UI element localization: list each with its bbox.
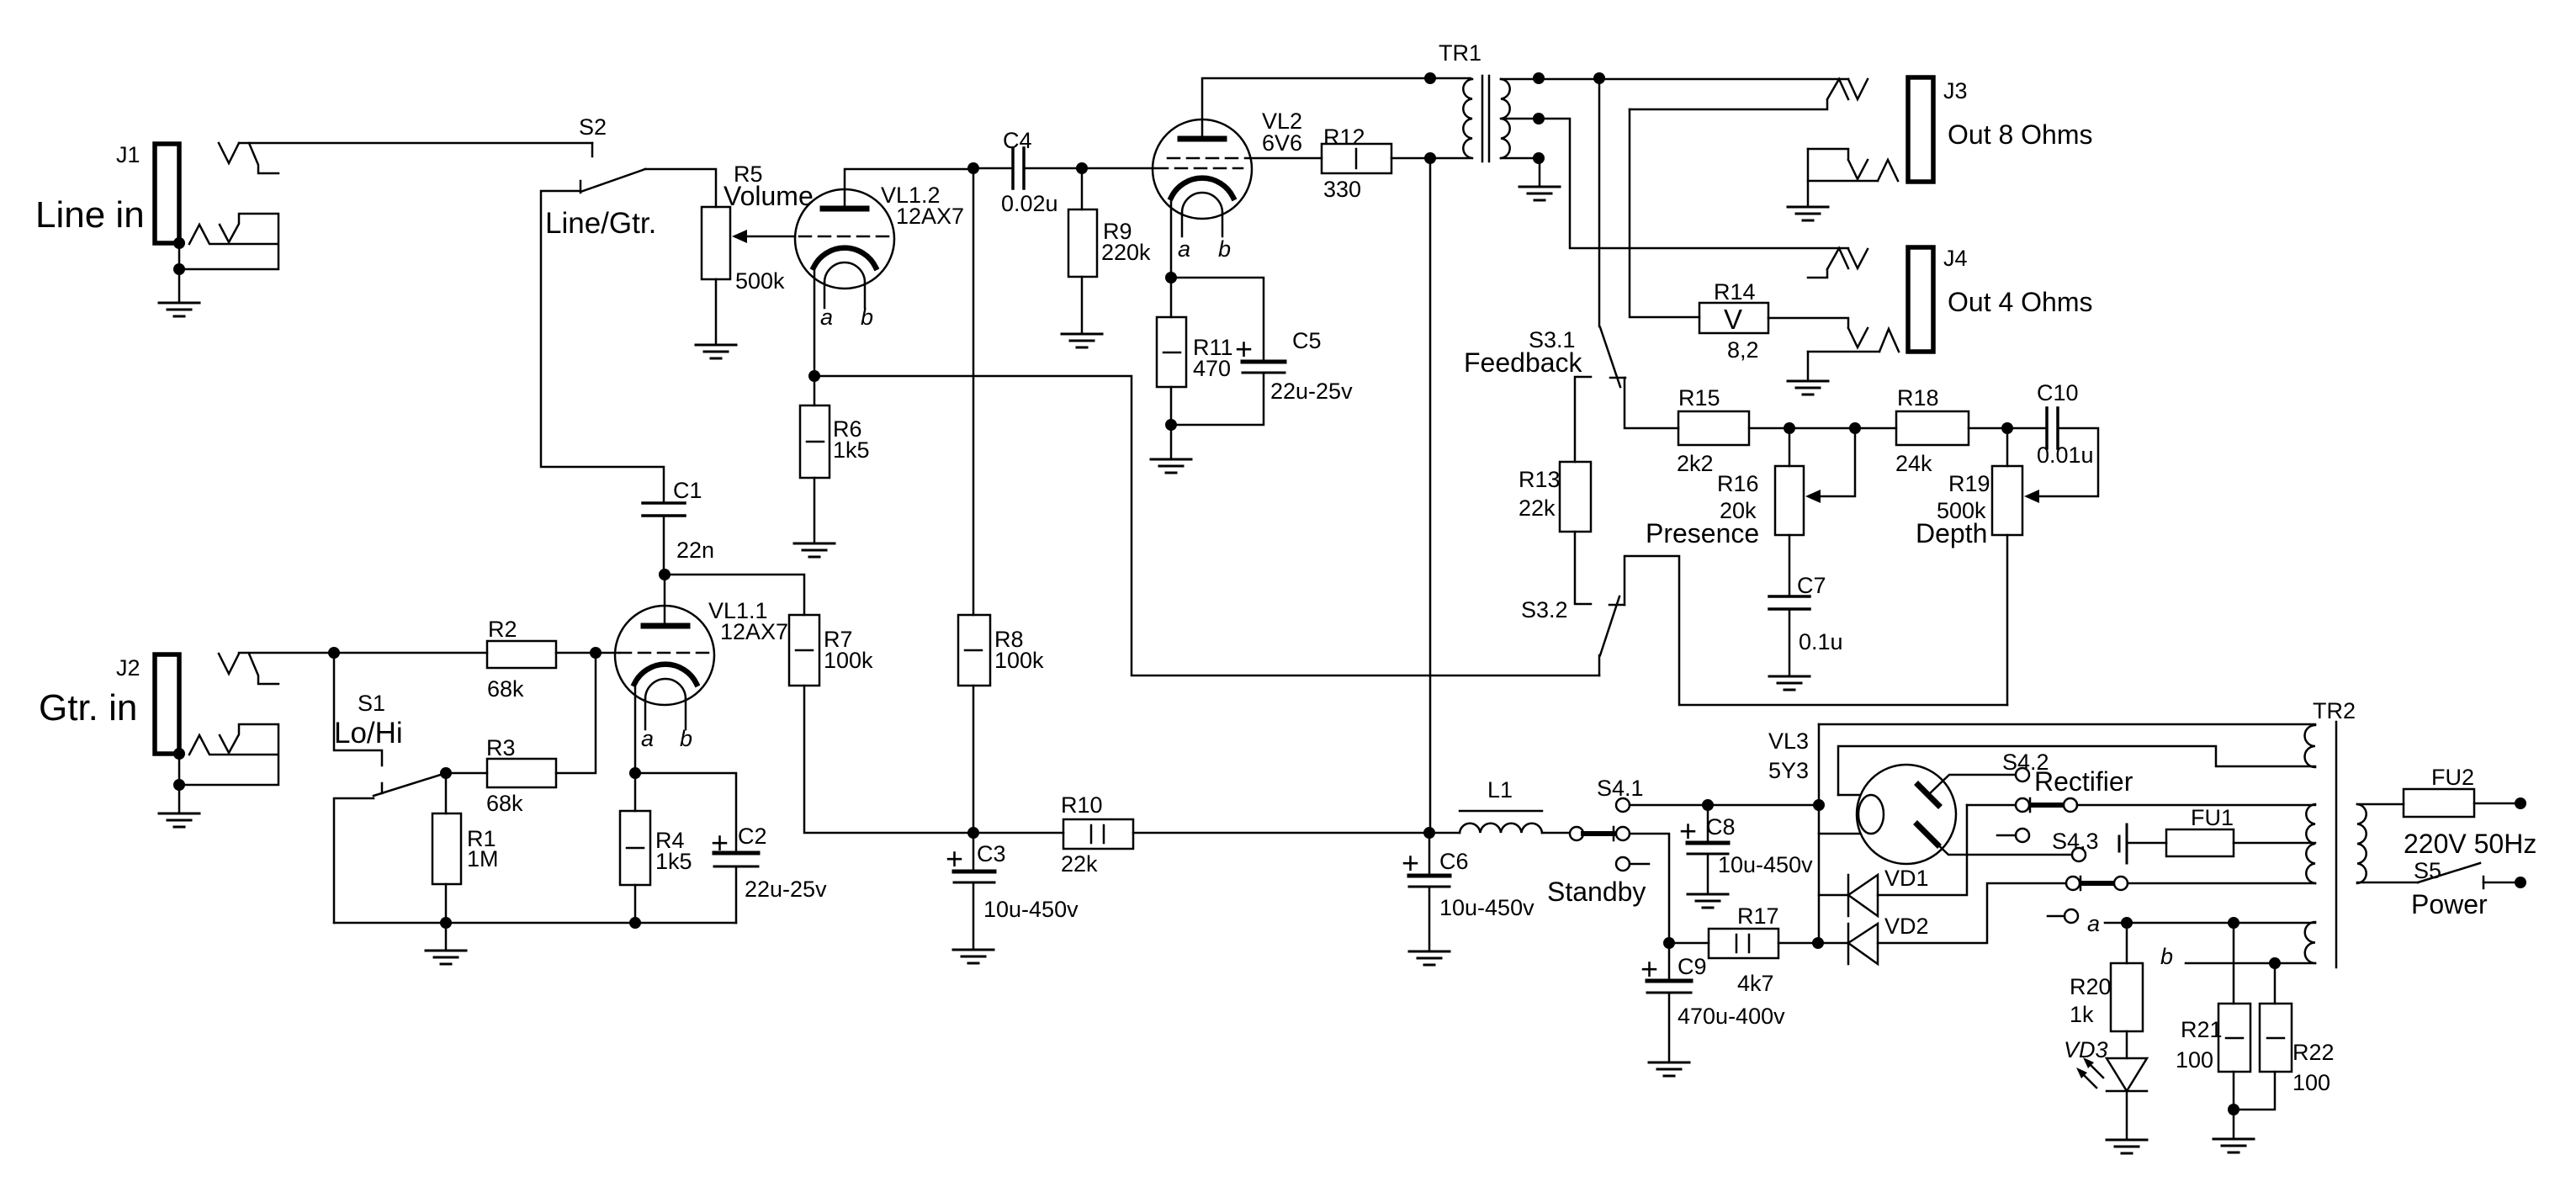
TR2 primary winding: [2357, 804, 2367, 883]
wire node to R17: [1669, 942, 1709, 945]
ground (C3): [953, 950, 994, 963]
svg-text:C6: C6: [1439, 849, 1469, 874]
node VL2 plate / TR1 primary top: [1424, 72, 1436, 84]
resistor R10: [1063, 819, 1133, 849]
wire S4.2 to TR2 HV top: [2077, 804, 2315, 807]
diode VD2 cathode bar: [1847, 924, 1850, 964]
ground (input bus): [426, 951, 466, 964]
svg-text:R2: R2: [488, 617, 517, 642]
svg-text:500k: 500k: [735, 268, 785, 294]
S4.1 arm tick: [1613, 827, 1615, 840]
wire R12 to primary bottom node: [1391, 157, 1471, 160]
wire TR1 secondary top to J3: [1501, 78, 1848, 81]
svg-text:VL3: VL3: [1768, 728, 1809, 754]
node secondary bottom terminal: [1533, 152, 1545, 164]
svg-text:a: a: [641, 726, 654, 751]
diode VD1 cathode bar: [1847, 875, 1850, 916]
VD3 emission arrows: [2076, 1057, 2103, 1088]
capacitor C3: [954, 870, 994, 874]
R5 wiper arrow: [745, 236, 795, 238]
svg-text:6V6: 6V6: [1262, 130, 1302, 156]
svg-text:J2: J2: [116, 655, 140, 681]
wire J3 switched to R14: [1630, 109, 1699, 317]
svg-text:0.01u: 0.01u: [2037, 442, 2094, 468]
switch S3.1 common wire: [1598, 78, 1601, 326]
node secondary top terminal: [1533, 72, 1545, 84]
svg-text:FU1: FU1: [2191, 805, 2234, 830]
svg-text:1k: 1k: [2070, 1002, 2094, 1027]
free contact (heater a row): [2065, 909, 2078, 923]
wire TR1 4-ohm tap to J4: [1501, 119, 1848, 248]
svg-text:L1: L1: [1487, 777, 1513, 803]
svg-text:10u-450v: 10u-450v: [1718, 852, 1813, 877]
switch S3.2 arm: [1599, 596, 1619, 675]
svg-text:a: a: [2087, 911, 2100, 936]
wire R3 to grid node: [556, 653, 596, 773]
svg-text:Out 4 Ohms: Out 4 Ohms: [1948, 287, 2093, 317]
resistor R7: [789, 615, 819, 686]
J4 tip switched stub: [1808, 269, 1827, 278]
node C1/VL1.1 grid/R7: [659, 569, 671, 580]
S4.2 throw contact: [2064, 798, 2077, 812]
svg-text:VD2: VD2: [1884, 914, 1929, 939]
svg-text:S1: S1: [358, 691, 385, 716]
ground (R6): [794, 543, 835, 557]
J4 ground stem: [1807, 352, 1810, 379]
tube VL1.2 envelope: [795, 189, 894, 289]
svg-text:b: b: [2160, 944, 2173, 969]
VL3 filament top lead: [1838, 794, 1859, 797]
svg-text:R22: R22: [2292, 1040, 2335, 1065]
wire S4.1 to C9 node: [1630, 834, 1669, 943]
svg-text:68k: 68k: [487, 676, 524, 702]
VL2 heater lead a: [1181, 213, 1184, 236]
ground (C6): [1409, 951, 1450, 965]
node R21 top: [2228, 917, 2239, 929]
VL2 plate lead: [1202, 78, 1471, 136]
R4 bottom lead: [634, 885, 637, 923]
wire node to R10: [973, 832, 1063, 834]
wire R6 to ground: [814, 478, 816, 542]
node R7/R8/C3/R10 (B+ preamp): [967, 827, 979, 839]
S5 contact tick: [2483, 877, 2485, 888]
R19 bottom lead: [2006, 535, 2009, 705]
R1 top lead: [445, 773, 448, 813]
S4.1 throw contact: [1616, 827, 1630, 840]
S4.2 arm (closed): [2032, 803, 2063, 808]
wire J2 sleeve to ground: [178, 754, 181, 812]
J1 tip switched stub: [249, 143, 278, 173]
wire VD3 to ground: [2126, 1091, 2128, 1138]
J2 sleeve spring contact: [189, 735, 278, 755]
R19 top lead: [2006, 428, 2009, 466]
node C6 / L1 / B+: [1423, 827, 1435, 839]
node R16 wiper takeoff: [1849, 422, 1861, 434]
wire chassis to FU1: [2127, 842, 2166, 845]
ground (R5): [696, 345, 736, 358]
svg-text:22k: 22k: [1519, 495, 1556, 521]
ground (J4): [1788, 381, 1828, 395]
VL3 anode 1 lead: [1929, 775, 2016, 794]
ground (R11/C5): [1151, 459, 1191, 473]
resistor R1: [432, 813, 461, 884]
R16 wiper wire: [1817, 428, 1855, 496]
J2 shunt spring contact: [179, 724, 278, 785]
svg-text:470: 470: [1193, 356, 1231, 381]
wire cathode node to C5: [1171, 278, 1264, 362]
connector J1 (Line in jack body): [155, 144, 179, 243]
fuse FU2: [2404, 789, 2474, 817]
wire cathode node to feedback return: [814, 376, 1599, 675]
wire C6 to ground: [1428, 887, 1431, 950]
svg-text:4k7: 4k7: [1737, 971, 1774, 996]
node R17 / VD2 / VD1 riser: [1812, 937, 1824, 949]
R6 top lead: [814, 376, 816, 405]
S1 contact tick: [381, 783, 384, 793]
wire R9 to ground: [1081, 277, 1084, 332]
ground (J2): [159, 813, 199, 827]
R11 top lead: [1170, 278, 1173, 317]
svg-text:100: 100: [2176, 1047, 2213, 1073]
svg-text:C7: C7: [1797, 573, 1826, 598]
svg-text:22u-25v: 22u-25v: [1270, 379, 1353, 404]
svg-text:220k: 220k: [1101, 240, 1151, 265]
capacitor C5: [1243, 360, 1285, 364]
R16 bottom lead: [1789, 535, 1791, 596]
switch S4.3 plate contact: [2072, 848, 2086, 861]
svg-text:b: b: [861, 305, 873, 330]
svg-text:Rectifier: Rectifier: [2034, 766, 2133, 797]
tube VL3 envelope: [1857, 765, 1956, 864]
switch S1 arm: [374, 773, 446, 796]
svg-text:C9: C9: [1678, 954, 1707, 979]
svg-text:Line in: Line in: [35, 194, 145, 236]
wire R7 bottom to node: [804, 686, 973, 833]
svg-text:100k: 100k: [994, 648, 1044, 673]
fuse FU1: [2166, 829, 2234, 856]
wire VD1 cathode to riser: [1819, 894, 1848, 897]
ground (J3): [1788, 207, 1828, 220]
node C8 top: [1702, 799, 1714, 811]
node J2 tip / S1: [328, 647, 340, 659]
ground (C8): [1688, 894, 1728, 908]
svg-text:V: V: [1724, 304, 1742, 335]
capacitor C8: [1688, 841, 1728, 845]
svg-text:100k: 100k: [824, 648, 873, 673]
C9 top lead: [1668, 943, 1671, 981]
switch S4.2 upper contact: [2016, 768, 2029, 781]
resistor R14: [1699, 303, 1768, 333]
wire C3 to ground: [973, 882, 975, 948]
svg-text:1M: 1M: [467, 846, 499, 871]
svg-text:VD1: VD1: [1884, 866, 1929, 891]
node VL2 cathode / R11 / C5: [1165, 272, 1177, 283]
J3 tip spring contacts: [1827, 79, 1868, 99]
node R12 / TR1 primary bottom / B+: [1424, 152, 1436, 164]
wire node to R3: [446, 772, 487, 775]
J1 sleeve spring contact: [189, 225, 278, 244]
resistor R17: [1709, 929, 1778, 958]
svg-text:C2: C2: [738, 824, 767, 849]
wire VD2 anode to S4.3 row: [1878, 883, 2066, 943]
wire VL2 screen to R12: [1245, 157, 1322, 160]
wire S5 to mains terminal: [2483, 882, 2515, 884]
tube VL2 envelope: [1153, 119, 1252, 219]
TR2 6.3V winding: [2305, 922, 2315, 963]
node secondary tap terminal: [1533, 113, 1545, 124]
VL3 anode 1 bar: [1918, 785, 1938, 805]
resistor R6: [800, 405, 830, 478]
VL1.1 heater lead a: [644, 699, 647, 729]
ground stem (bus): [445, 923, 448, 949]
node R22 top: [2269, 957, 2281, 969]
node S1/R1/R3: [440, 767, 452, 779]
VL1.2 plate bar: [823, 206, 867, 212]
VL1.1 heater lead b: [685, 699, 687, 729]
ground (C9): [1649, 1062, 1689, 1076]
svg-text:1k5: 1k5: [833, 437, 870, 463]
VL2 screen grid (dashed): [1168, 157, 1245, 160]
svg-text:Line/Gtr.: Line/Gtr.: [545, 207, 656, 240]
VL1.1 heater arc: [645, 679, 686, 699]
node VL1.1 cathode / R4 / C2: [629, 767, 641, 779]
wire C8 to ground: [1707, 854, 1709, 893]
S4.2 arm tick: [2029, 798, 2032, 812]
R5 wiper arrowhead: [732, 230, 747, 243]
ground (R21/R22): [2213, 1139, 2254, 1152]
resistor R8: [958, 615, 990, 686]
switch S4.3 open contact: [2016, 829, 2029, 842]
LED VD3: [2107, 1058, 2147, 1091]
svg-text:S3.2: S3.2: [1521, 597, 1568, 622]
wire TR2 primary bottom to S5: [2357, 882, 2418, 884]
resistor R15: [1678, 411, 1749, 445]
VL1.2 heater arc: [824, 262, 865, 283]
S3.2 contact to presence loop: [1625, 556, 2007, 705]
ground (C7): [1769, 676, 1810, 690]
switch S2 upper contact: [591, 143, 594, 156]
wire R5 to ground: [715, 279, 718, 343]
svg-text:Gtr. in: Gtr. in: [39, 687, 137, 728]
wire J2 tip to R2: [239, 652, 487, 654]
VL1.2 cathode arc: [814, 248, 876, 268]
svg-text:100: 100: [2292, 1070, 2330, 1095]
svg-text:Depth: Depth: [1916, 518, 1987, 548]
ground (R9): [1062, 334, 1102, 347]
svg-text:FU2: FU2: [2431, 765, 2474, 790]
svg-text:22u-25v: 22u-25v: [745, 877, 827, 902]
node J2 sleeve: [173, 748, 185, 760]
wire VL3 filament node riser: [1818, 724, 1821, 943]
S4.3 arm (closed): [2082, 881, 2113, 886]
svg-text:R17: R17: [1737, 903, 1779, 929]
wire S4.2 feed: [1967, 804, 2016, 807]
wire TR1 secondary bottom to ground: [1501, 158, 1540, 185]
svg-text:R19: R19: [1948, 471, 1990, 496]
svg-text:2k2: 2k2: [1677, 451, 1714, 476]
wire C9 to ground: [1668, 993, 1671, 1061]
svg-text:TR1: TR1: [1439, 40, 1481, 66]
switch S4.3 pole contact: [2066, 877, 2080, 890]
resistor R2: [487, 641, 556, 668]
wire C2 to ground bus: [735, 866, 738, 923]
svg-text:Presence: Presence: [1646, 518, 1759, 548]
J3 sleeve lower contact: [1808, 160, 1898, 181]
VL3 filament loop: [1858, 795, 1884, 834]
wire node to C4: [973, 167, 1013, 170]
J4 sleeve lower contact: [1808, 329, 1899, 352]
svg-text:68k: 68k: [486, 791, 523, 816]
wire heater a to TR2: [2105, 922, 2315, 924]
wire R14 to J4 sleeve: [1768, 318, 1868, 347]
R20 top lead: [2126, 923, 2128, 963]
svg-text:a: a: [1178, 236, 1190, 262]
VL1.2 heater lead b: [864, 283, 867, 308]
diode VD2: [1848, 924, 1878, 964]
transformer TR2 5V winding: [2304, 725, 2315, 767]
node J2 ground junction: [173, 779, 185, 791]
S4.3 open contact stub: [1997, 834, 2016, 837]
svg-text:12AX7: 12AX7: [720, 619, 788, 644]
svg-text:10u-450v: 10u-450v: [1439, 895, 1534, 920]
switch S5 arm: [2418, 863, 2480, 882]
TR2 HV winding: [2306, 804, 2315, 883]
node C4 right / R9: [1076, 162, 1088, 174]
wire R8 riser: [973, 168, 975, 615]
tube VL1.1 envelope: [615, 606, 714, 705]
VL1.2 plate lead: [845, 169, 973, 206]
svg-text:C8: C8: [1706, 814, 1736, 840]
svg-text:b: b: [1218, 236, 1231, 262]
wire J1 sleeve to ground: [178, 243, 181, 301]
S4.1 upper contact: [1616, 798, 1630, 812]
wire C5 bottom to R11 bottom: [1171, 373, 1264, 425]
ground (TR1 secondary): [1519, 187, 1560, 200]
wire B+ riser to C6 node: [1429, 158, 1432, 833]
VL2 cathode arc: [1171, 178, 1233, 198]
wire heater b to TR2: [2186, 962, 2315, 965]
VL1.2 heater lead a: [824, 283, 826, 308]
capacitor C10: [2047, 408, 2058, 448]
terminal mains neutral: [2515, 877, 2526, 888]
node R11/C5 bottom: [1165, 419, 1177, 431]
S3.1 left throw contact: [1575, 377, 1591, 462]
VL1.1 plate lead: [664, 575, 666, 623]
ground bus wire: [334, 922, 736, 924]
potentiometer R19: [1992, 466, 2022, 535]
VL2 heater lead b: [1222, 213, 1224, 236]
wire J1 tip to S2: [239, 142, 592, 145]
node VL3 filament / B+: [1813, 799, 1825, 811]
svg-text:22k: 22k: [1061, 851, 1098, 877]
svg-text:Lo/Hi: Lo/Hi: [334, 717, 403, 750]
wire TR2 primary top to FU2: [2357, 803, 2404, 806]
switch S4.2 pole contact: [2016, 798, 2029, 812]
resistor R22: [2260, 1004, 2292, 1072]
wire grid node to R7: [665, 575, 804, 615]
wire R2 to grid node: [556, 652, 596, 654]
S3.1 right contact to R15: [1625, 378, 1678, 428]
S4.1 lower contact: [1616, 857, 1630, 871]
svg-text:a: a: [820, 305, 833, 330]
resistor R4: [620, 811, 650, 885]
J3 ground stem: [1807, 149, 1810, 205]
inductor L1 bar: [1460, 810, 1542, 813]
wire FU1 to TR2 HV center tap: [2234, 842, 2315, 845]
wire S2 to C1: [541, 191, 664, 503]
VL1.1 cathode lead: [634, 684, 637, 773]
svg-text:R15: R15: [1678, 385, 1720, 411]
ground stem (R21/R22): [2233, 1110, 2235, 1137]
resistor R20: [2111, 963, 2143, 1031]
svg-text:J1: J1: [116, 142, 140, 167]
TR1 secondary winding: [1501, 79, 1510, 158]
node VL1.1 grid: [590, 647, 602, 659]
VL3 anode 2 lead: [1928, 835, 2072, 855]
J3 tip switched wire: [1630, 100, 1827, 109]
R19 wiper arrowhead: [2024, 490, 2039, 503]
svg-text:470u-400v: 470u-400v: [1678, 1004, 1785, 1029]
svg-text:R13: R13: [1519, 467, 1561, 492]
svg-text:Feedback: Feedback: [1464, 347, 1583, 378]
svg-text:J3: J3: [1943, 78, 1968, 103]
resistor R9: [1068, 209, 1097, 277]
svg-text:Volume: Volume: [724, 181, 814, 211]
J1 shunt spring contact: [179, 214, 278, 269]
S3.2 upper contact tick: [1609, 604, 1625, 607]
R16 wiper arrowhead: [1805, 490, 1821, 503]
connector J3 (Out 8 Ohms jack body): [1908, 77, 1933, 182]
svg-text:J4: J4: [1943, 246, 1968, 271]
wire R8 bottom to C3 node: [973, 686, 975, 833]
wire R17 to VD2: [1778, 942, 1848, 945]
VL1.2 cathode lead: [814, 268, 816, 376]
C3 top lead: [973, 833, 975, 871]
capacitor C4: [1013, 148, 1024, 188]
ground (VD3): [2107, 1140, 2147, 1153]
VL2 heater arc: [1182, 193, 1222, 213]
wire C1 to grid node: [663, 516, 665, 575]
R20 bottom lead: [2126, 1031, 2128, 1058]
TR2 core: [2335, 722, 2338, 967]
capacitor C9: [1647, 979, 1691, 983]
svg-text:Power: Power: [2411, 889, 2488, 919]
wire S4.1 upper to VL3 node: [1630, 804, 1814, 807]
node R21/R22 ground: [2228, 1104, 2239, 1115]
node C9 / R17 / S4.1: [1663, 937, 1675, 949]
svg-text:220V 50Hz: 220V 50Hz: [2404, 829, 2536, 859]
free contact stub (a row): [2048, 915, 2065, 918]
inductor L1: [1460, 824, 1542, 833]
connector J2 (Gtr. in jack body): [155, 654, 179, 754]
svg-text:5Y3: 5Y3: [1768, 758, 1809, 783]
wire cathode node to C2: [635, 773, 736, 853]
ground (J1): [159, 303, 199, 316]
resistor R3: [487, 759, 556, 787]
svg-text:R3: R3: [486, 735, 516, 760]
VL2 cathode lead: [1170, 198, 1173, 278]
wire FU2 to mains terminal: [2474, 803, 2515, 805]
C6 top lead: [1428, 833, 1431, 876]
transformer TR1 primary winding: [1463, 79, 1472, 158]
switch S2 arm: [580, 169, 645, 192]
svg-text:0.02u: 0.02u: [1001, 191, 1058, 216]
J1 tip spring contact: [219, 143, 239, 163]
svg-text:b: b: [680, 726, 692, 751]
wire filament 2 to TR2 5V winding bottom: [1838, 746, 2315, 795]
svg-text:1k5: 1k5: [655, 849, 692, 874]
svg-text:R20: R20: [2070, 974, 2112, 999]
